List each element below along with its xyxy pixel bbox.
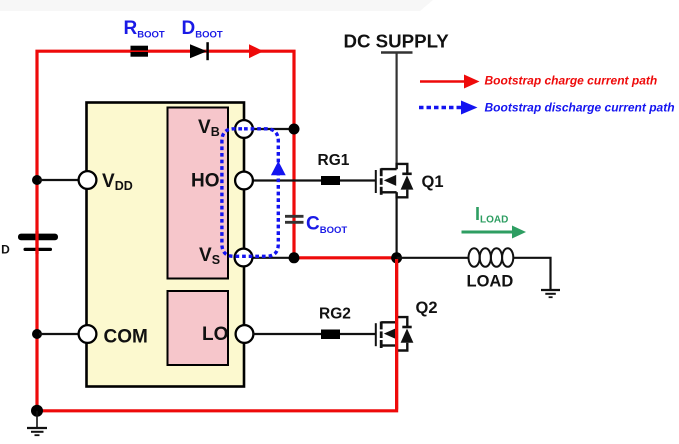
svg-text:HO: HO	[191, 171, 220, 192]
junction node: VS / switch node	[289, 252, 300, 263]
pin LO	[236, 325, 254, 343]
wire: RG1 to Q1 gate	[340, 179, 376, 181]
pin VS	[235, 249, 253, 267]
red charge-path arrowhead on top wire	[249, 44, 264, 58]
diode DBOOT	[190, 42, 208, 60]
junction node: VB / bootstrap rail	[289, 124, 300, 135]
wire: load to ground	[513, 258, 550, 290]
inductor LOAD	[469, 248, 514, 267]
battery VDD supply	[18, 231, 58, 254]
svg-text:RBOOT: RBOOT	[124, 18, 165, 41]
legend: charge path arrow	[420, 75, 480, 89]
wire: red charge path overlay through Q2	[395, 259, 398, 410]
resistor RG2	[321, 330, 340, 340]
svg-text:DC SUPPLY: DC SUPPLY	[344, 30, 450, 51]
low-side driver sub-block (LO)	[168, 291, 229, 365]
transistor Q2 (low-side MOSFET)	[376, 317, 414, 350]
green load current arrow	[462, 226, 527, 239]
svg-text:LO: LO	[202, 324, 228, 345]
pin VB	[235, 120, 253, 138]
legend: discharge path arrow	[419, 101, 478, 115]
svg-text:RG2: RG2	[319, 306, 351, 323]
high-side driver sub-block (VB/HO/VS)	[168, 108, 229, 279]
pin COM	[79, 325, 97, 343]
svg-text:DBOOT: DBOOT	[182, 18, 223, 41]
pin HO	[235, 172, 253, 190]
wire: Q1 source to switch node	[396, 192, 398, 255]
svg-text:D: D	[1, 243, 10, 257]
wire: VB pin to bootstrap node	[252, 128, 291, 130]
junction node: VDD tap	[32, 175, 42, 185]
svg-text:Bootstrap charge current path: Bootstrap charge current path	[485, 74, 658, 88]
wire: RG2 to Q2 gate	[340, 333, 376, 335]
svg-text:CBOOT: CBOOT	[306, 214, 347, 237]
wire: DC supply to Q1 drain	[396, 54, 398, 170]
blue bootstrap discharge path (dotted loop)	[222, 129, 278, 256]
wire: VS pin to switch node	[252, 257, 292, 259]
junction node: ground corner	[31, 405, 43, 417]
transistor Q1 (high-side MOSFET)	[376, 164, 414, 197]
junction node: switch node / load	[391, 252, 402, 263]
ground symbol (main)	[27, 411, 47, 435]
wire: VDD tap to VDD pin	[39, 179, 80, 181]
svg-text:LOAD: LOAD	[467, 273, 514, 291]
DC supply rail bar	[381, 51, 413, 54]
svg-text:Q1: Q1	[422, 173, 444, 191]
wire: red bootstrap charge current path loop	[37, 51, 397, 411]
junction node: COM tap	[32, 329, 42, 339]
wire: HO pin to RG1	[252, 179, 322, 181]
resistor RG1	[321, 176, 340, 185]
svg-text:Q2: Q2	[416, 299, 438, 317]
svg-text:ILOAD: ILOAD	[475, 204, 508, 226]
wire: switch node to load inductor	[397, 257, 469, 259]
resistor RBOOT	[131, 46, 149, 57]
wire: COM tap to COM pin	[39, 333, 80, 335]
capacitor CBOOT	[285, 216, 304, 222]
IC gate-driver block U1	[87, 103, 245, 387]
ground symbol (load return)	[541, 290, 560, 297]
wire: LO pin to RG2	[253, 333, 322, 335]
svg-text:RG1: RG1	[318, 152, 350, 169]
svg-text:COM: COM	[104, 327, 148, 348]
blue discharge arrowhead (upward)	[271, 161, 286, 175]
svg-text:Bootstrap discharge current pa: Bootstrap discharge current path	[485, 101, 675, 115]
pin VDD	[79, 171, 97, 189]
